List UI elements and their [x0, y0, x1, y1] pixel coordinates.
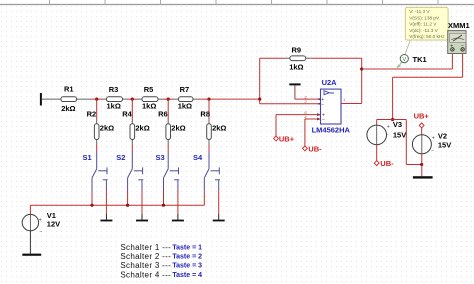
- svg-text:−: −: [39, 230, 42, 236]
- probe readout box: [405, 7, 448, 40]
- wire R7 to node D: [198, 98, 209, 100]
- svg-text:Taste = 2: Taste = 2: [172, 254, 202, 261]
- svg-text:UB+: UB+: [279, 134, 295, 143]
- svg-text:∞: ∞: [330, 91, 334, 97]
- svg-text:−: −: [386, 132, 389, 138]
- svg-text:R2: R2: [87, 110, 97, 119]
- svg-text:15V: 15V: [393, 131, 406, 140]
- svg-text:U2A: U2A: [322, 78, 338, 87]
- connector UB- (V3): [374, 159, 394, 168]
- svg-text:Schalter 3 ---: Schalter 3 ---: [120, 261, 171, 270]
- wire S3 blade to bus: [163, 191, 165, 205]
- wire op-amp V+ to UB+: [276, 115, 321, 137]
- resistor R5: [137, 85, 163, 110]
- svg-text:Schalter 4 ---: Schalter 4 ---: [120, 270, 171, 279]
- voltage source V2: [412, 128, 451, 165]
- ground (op-amp non-inverting input): [289, 83, 320, 99]
- resistor R3: [102, 85, 128, 110]
- wire output to XMM1 plus: [362, 54, 453, 70]
- bus junction S2: [126, 204, 129, 207]
- wire S3 throw to ground: [177, 190, 179, 214]
- svg-text:R8: R8: [200, 110, 210, 119]
- node V2 ground junction: [420, 163, 423, 166]
- svg-text:TK1: TK1: [413, 55, 427, 64]
- resistor R1: [61, 85, 92, 114]
- wire S2 blade to bus: [127, 191, 129, 205]
- bus junction S1: [90, 204, 93, 207]
- svg-text:V(eff): 11.2 V: V(eff): 11.2 V: [409, 22, 437, 27]
- svg-text:+: +: [39, 218, 42, 224]
- svg-text:1kΩ: 1kΩ: [142, 101, 156, 110]
- svg-text:V: -11.3 V: V: -11.3 V: [409, 9, 430, 14]
- svg-text:2kΩ: 2kΩ: [61, 104, 75, 113]
- svg-text:R6: R6: [158, 110, 168, 119]
- resistor R9: [285, 46, 311, 72]
- svg-text:R5: R5: [144, 85, 154, 94]
- svg-text:−: −: [431, 149, 434, 155]
- svg-text:15V: 15V: [438, 141, 451, 150]
- node B junction: [131, 98, 134, 101]
- svg-text:Taste = 3: Taste = 3: [172, 263, 202, 270]
- svg-text:R9: R9: [292, 46, 302, 55]
- svg-text:Taste = 1: Taste = 1: [172, 244, 202, 251]
- wire R9 left to inverting node: [260, 58, 285, 104]
- svg-text:2kΩ: 2kΩ: [100, 123, 114, 132]
- node output junction: [360, 67, 363, 70]
- resistor R7: [173, 85, 198, 110]
- wire node to V2 ground net: [393, 120, 422, 165]
- svg-text:2kΩ: 2kΩ: [135, 123, 149, 132]
- switch S4: [204, 153, 220, 192]
- wire S2 throw to ground: [141, 190, 143, 214]
- node A junction: [95, 98, 98, 101]
- ground (S3): [177, 214, 179, 220]
- wire op-amp V- to UB-: [305, 119, 321, 146]
- ground (S2): [141, 214, 143, 220]
- svg-text:XMM1: XMM1: [448, 21, 470, 30]
- svg-text:S3: S3: [156, 153, 165, 162]
- svg-text:UB-: UB-: [380, 159, 394, 168]
- svg-text:+: +: [387, 124, 390, 130]
- resistor R2: [87, 99, 115, 152]
- connector UB+ (V2): [414, 111, 430, 128]
- svg-text:UB-: UB-: [308, 144, 322, 153]
- svg-text:Taste = 4: Taste = 4: [172, 272, 202, 279]
- svg-text:2kΩ: 2kΩ: [171, 123, 185, 132]
- svg-text:LM4562HA: LM4562HA: [312, 126, 351, 135]
- ground (V2): [413, 176, 433, 178]
- text Schalter lines: [120, 243, 202, 280]
- node D junction: [207, 98, 210, 101]
- svg-text:V(freq): 50.0 kHz: V(freq): 50.0 kHz: [409, 34, 445, 39]
- svg-text:−: −: [322, 117, 325, 123]
- wire S1 blade to bus: [91, 191, 93, 205]
- wire S1 throw to ground: [105, 190, 107, 214]
- resistor R4: [122, 99, 150, 152]
- svg-text:V(dc): -11.3 V: V(dc): -11.3 V: [409, 28, 438, 33]
- wire R5 to node C: [163, 98, 173, 100]
- wire V2 to ground: [421, 165, 423, 177]
- wire S4 throw to ground: [218, 190, 220, 214]
- svg-text:V(SS): 138 pV: V(SS): 138 pV: [409, 15, 440, 20]
- svg-text:Schalter 2 ---: Schalter 2 ---: [120, 252, 171, 261]
- node V3/V2 junction: [391, 118, 394, 121]
- svg-text:R4: R4: [122, 110, 132, 119]
- wire R9 right to output node: [311, 58, 362, 103]
- svg-text:V2: V2: [438, 131, 447, 140]
- svg-text:1kΩ: 1kΩ: [107, 101, 121, 110]
- wire inverting input: [260, 103, 321, 105]
- switch S2: [128, 153, 144, 192]
- switch S3: [164, 153, 180, 192]
- wire bottom bus V1 to switches: [30, 205, 204, 214]
- ground (left of R1, rotated): [40, 93, 61, 106]
- ground (V1): [22, 254, 41, 256]
- svg-text:UB+: UB+: [414, 111, 430, 120]
- bus junction S3: [162, 204, 165, 207]
- svg-text:−: −: [321, 102, 324, 108]
- wire XMM1 minus to V3 node: [393, 54, 463, 120]
- wire op-amp output: [341, 103, 362, 105]
- wire R1 to node A: [92, 98, 97, 100]
- svg-text:2kΩ: 2kΩ: [212, 123, 226, 132]
- svg-text:12V: 12V: [47, 219, 60, 228]
- wire S4 blade to bus: [203, 191, 205, 205]
- voltage source V1: [22, 211, 60, 253]
- resistor R8: [200, 99, 226, 152]
- svg-text:R7: R7: [180, 85, 190, 94]
- wire V3 minus to UB-: [376, 145, 378, 161]
- multimeter XMM1: [448, 21, 470, 54]
- connector UB- (op-amp): [303, 144, 323, 153]
- svg-text:1kΩ: 1kΩ: [178, 101, 192, 110]
- probe TK1: [397, 38, 427, 68]
- svg-text:V3: V3: [393, 120, 402, 129]
- svg-text:1kΩ: 1kΩ: [289, 63, 303, 72]
- op-amp U2A LM4562HA: [304, 78, 350, 134]
- svg-text:S1: S1: [83, 153, 92, 162]
- svg-text:+: +: [432, 136, 435, 142]
- svg-text:S2: S2: [116, 153, 125, 162]
- wire R3 to node B: [128, 98, 138, 100]
- svg-text:R1: R1: [64, 85, 74, 94]
- resistor R6: [158, 99, 186, 152]
- svg-text:V: V: [402, 57, 406, 63]
- voltage source V3: [367, 120, 406, 145]
- node C junction: [167, 98, 170, 101]
- switch S1: [92, 153, 108, 192]
- ground (S4): [218, 214, 220, 220]
- ground (S1): [105, 214, 107, 220]
- svg-text:Schalter 1 ---: Schalter 1 ---: [120, 243, 171, 252]
- sheet border top line: [0, 0, 474, 5]
- svg-text:R3: R3: [109, 85, 119, 94]
- wire node to V3 plus: [377, 120, 393, 126]
- wire node D to op-amp net: [209, 98, 260, 100]
- wire node A to R3: [97, 98, 102, 100]
- connector UB+ (op-amp): [274, 134, 295, 143]
- node feedback junction: [258, 98, 261, 101]
- svg-text:S4: S4: [193, 153, 203, 162]
